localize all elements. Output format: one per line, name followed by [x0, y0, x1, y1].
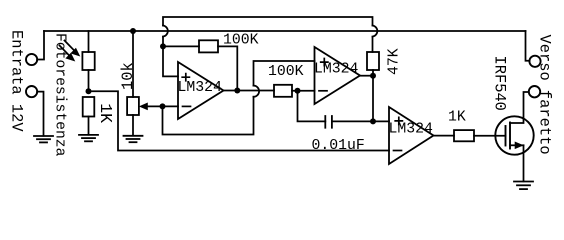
terminal J2 Entrata - [26, 86, 37, 97]
Q1 source arrow [510, 142, 524, 148]
wire opamp1 output to R3 [224, 90, 275, 92]
svg-text:Verso faretto: Verso faretto [536, 35, 554, 155]
wire rail to J3 [526, 31, 530, 61]
wire hop over rail (x163) [163, 26, 168, 37]
resistor R1 1K body [83, 97, 95, 117]
op-amp U1B LM324 [315, 47, 361, 104]
resistor R5 1K body [454, 130, 474, 141]
minus sign U1B [319, 90, 327, 92]
ground G3 [124, 136, 143, 142]
wire R3 to opamp2 inverting input [292, 90, 315, 92]
Q1 drain stub [510, 92, 529, 123]
photoresistor LDR body [82, 52, 94, 70]
terminal J4 Verso - [529, 86, 540, 97]
resistor R3 100K body [274, 85, 292, 97]
wire node A to R2 [163, 45, 199, 47]
plus sign U1A [182, 74, 189, 81]
wire Q1 source to ground [523, 145, 525, 181]
node opamp1 output junction [234, 88, 240, 94]
wire R2 to opamp1 output [218, 46, 237, 90]
node LDR/R1 junction [86, 88, 92, 94]
minus sign U1A [183, 105, 191, 107]
plus sign U1C [395, 117, 402, 124]
photoresistor LDR wire top [88, 31, 90, 52]
wire hop over output (x253.5) [254, 86, 260, 97]
wire cap right leg to opamp3 plus [332, 120, 389, 122]
wire opamp3 output to R5 [434, 135, 455, 137]
wire J1 to rail [37, 31, 44, 60]
node wiper junction [160, 103, 166, 109]
terminal J1 Entrata + [26, 54, 37, 65]
wire node A up with hop over rail [163, 17, 373, 52]
wire +12V top rail [44, 30, 526, 32]
photoresistor arrow 1 [65, 41, 80, 56]
potentiometer wiper arrow [140, 103, 163, 109]
wire R5 to gate [474, 135, 506, 137]
wire pot to ground [132, 115, 134, 136]
svg-text:1K: 1K [448, 110, 466, 126]
Q1 channel bar [509, 123, 511, 149]
potentiometer P1 10k body [127, 97, 139, 115]
svg-text:LM324: LM324 [178, 80, 223, 96]
ground G4 [514, 182, 533, 190]
op-amp U1C LM324 [389, 107, 434, 164]
svg-text:10k: 10k [119, 62, 137, 90]
transistor Q1 IRF540 body circle [495, 116, 533, 154]
svg-text:47K: 47K [387, 48, 403, 75]
terminal J3 Verso + [529, 56, 540, 67]
svg-text:Entrata 12V: Entrata 12V [7, 30, 25, 132]
wire opamp2 output down to cap node [372, 76, 374, 122]
svg-text:0.01uF: 0.01uF [312, 138, 365, 154]
wire R4 to output node [372, 70, 374, 76]
wire opamp1 plus input [163, 46, 178, 76]
svg-text:Fotoresistenza: Fotoresistenza [52, 33, 68, 157]
photoresistor arrow 2 [60, 46, 75, 61]
node R3/cap junction [295, 88, 301, 94]
op-amp U1A LM324 [178, 62, 224, 119]
Q1 gate bar [505, 126, 507, 146]
capacitor C1 plates [325, 116, 332, 128]
wire cap left leg [298, 91, 326, 122]
wire rail to pot [132, 31, 134, 97]
svg-text:IRF540: IRF540 [491, 56, 509, 111]
svg-text:LM324: LM324 [389, 122, 434, 138]
svg-text:LM324: LM324 [314, 62, 359, 78]
resistor R2 100K body [199, 40, 218, 52]
wire R1 to ground [88, 117, 90, 135]
wire opamp1 minus to opamp2 plus route [163, 97, 254, 135]
svg-text:100K: 100K [268, 64, 304, 80]
wire J2 down [37, 92, 43, 136]
minus sign U1C [394, 150, 402, 152]
ground G1 [34, 136, 53, 142]
plus sign U1B [321, 59, 328, 66]
wire node to opamp3 inverting input [89, 91, 390, 150]
node feedback junction A [160, 43, 166, 49]
node opamp2 output junction [370, 73, 376, 79]
wire hop over rail (x372.5) [373, 26, 378, 37]
wire LDR bottom [88, 70, 90, 91]
ground G2 [79, 135, 98, 141]
node cap/opamp2out junction [370, 118, 376, 124]
wire wiper to opamp1 inverting input [163, 105, 179, 107]
resistor R4 47K body [367, 52, 379, 70]
node rail/pot junction [130, 28, 136, 34]
svg-text:1K: 1K [96, 103, 115, 123]
wire opamp2 output [360, 75, 373, 77]
